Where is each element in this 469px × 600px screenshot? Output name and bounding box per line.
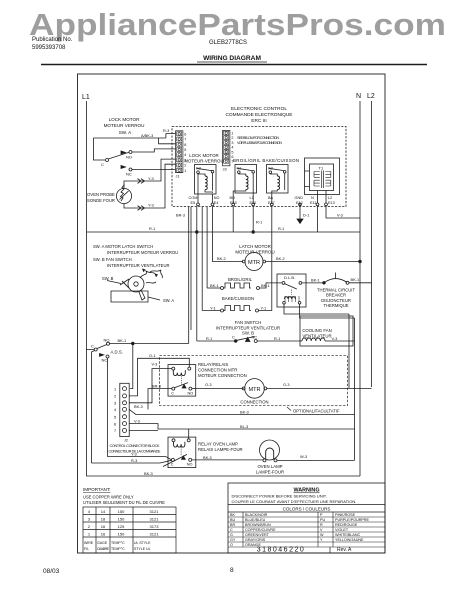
svg-text:PU: PU [320,518,325,522]
svg-text:N: N [356,93,361,100]
wire junction down to J2 pin 1 [130,344,133,389]
svg-text:BK-3: BK-3 [240,409,249,414]
svg-text:FAN SWITCH: FAN SWITCH [235,320,262,325]
wire BR-3 to relay C [148,389,172,410]
latch mechanism drawing [102,269,174,304]
svg-text:R-3: R-3 [163,128,169,133]
svg-text:VENTILATEUR: VENTILATEUR [302,333,331,338]
svg-text:NO: NO [104,338,110,343]
svg-text:R: R [320,523,323,527]
svg-text:BK-2: BK-2 [217,256,226,261]
wire bottom BK-3 return [87,350,361,477]
wire DLB to breaker [302,282,323,284]
label see below for connection [237,136,282,145]
svg-text:W: W [320,533,324,537]
relay DLB [277,274,306,307]
label relay connection MTR [198,362,247,378]
svg-text:MOTEUR VERROU: MOTEUR VERROU [104,123,145,128]
svg-text:SEE BELOW FOR CONNECTION: SEE BELOW FOR CONNECTION [237,136,279,140]
terminal L2 E13 [325,203,328,206]
wire relay NO to lamp BK-3 [192,459,263,461]
svg-text:E10: E10 [250,201,257,205]
svg-text:IMPORTANT:: IMPORTANT: [83,487,110,492]
svg-text:NO: NO [126,155,132,160]
svg-text:CONNECTION: CONNECTION [240,400,268,405]
svg-text:RELAIS LAMPE-FOUR: RELAIS LAMPE-FOUR [198,447,243,452]
wire SW A NO to J1 pin 4 [132,149,176,152]
svg-text:5: 5 [231,150,233,154]
svg-text:Rev. A: Rev. A [337,547,352,553]
relay connection MTR [168,365,196,397]
svg-text:BK-1: BK-1 [351,277,360,282]
svg-text:ERC III: ERC III [251,118,266,124]
svg-text:4: 4 [114,407,117,412]
optional dashed box [160,356,348,406]
svg-text:14: 14 [101,509,106,514]
wire J2 pin4 BK-3 [129,409,354,414]
switch SW A [93,138,105,160]
label important note [83,487,165,505]
svg-text:P: P [320,513,323,517]
wire A/BK-3 [93,137,165,139]
svg-text:C: C [101,162,104,167]
svg-text:R-1: R-1 [149,226,155,231]
svg-text:INTERRUPTEUR VENTILATEUR: INTERRUPTEUR VENTILATEUR [216,325,280,330]
svg-text:C: C [230,528,233,532]
heating element bake [202,310,220,312]
svg-text:2: 2 [88,524,91,529]
svg-text:2: 2 [114,394,116,399]
svg-text:CONNECTION MTR: CONNECTION MTR [198,368,237,373]
svg-text:BK-3: BK-3 [134,404,143,409]
wire J2 pin6 BL-3 [129,424,354,429]
svg-text:GND: GND [295,196,304,200]
wire ADS C down to R-3 [92,351,95,464]
svg-text:Y-3: Y-3 [131,451,137,456]
svg-text:16: 16 [101,532,106,537]
svg-text:LAMPE-FOUR: LAMPE-FOUR [256,469,284,474]
svg-text:Y-3: Y-3 [148,203,154,208]
svg-text:Publication No.: Publication No. [32,37,73,43]
svg-text:CONTROL CONNECTOR BLOCK: CONTROL CONNECTOR BLOCK [110,444,161,448]
cooling fan box [300,316,353,346]
svg-text:SW. B FAN SWITCH: SW. B FAN SWITCH [93,257,132,262]
wire DLB coil left down [284,304,349,314]
svg-text:BK-1: BK-1 [311,278,320,283]
wire Y-3 to relay [108,457,172,460]
svg-text:E11: E11 [310,201,316,205]
svg-text:SONDE FOUR: SONDE FOUR [87,198,115,203]
svg-text:RED/ROUGE: RED/ROUGE [335,523,358,527]
svg-text:J3: J3 [223,167,227,172]
label lock motor relay [184,153,223,164]
svg-text:MOTEUR CONNECTION: MOTEUR CONNECTION [198,373,247,378]
svg-text:FIL: FIL [84,547,89,551]
svg-text:COM: COM [189,196,198,200]
switch SW B fan [197,340,235,342]
svg-text:SW. A MOTOR LATCH SWITCH: SW. A MOTOR LATCH SWITCH [93,244,153,249]
svg-text:08/03: 08/03 [43,568,60,575]
svg-text:RELAY OVEN LAMP: RELAY OVEN LAMP [198,442,238,447]
top rule [41,64,427,66]
svg-text:18: 18 [101,517,106,522]
wire probe top Y-3 to J1 pin 6 [124,159,176,188]
svg-text:3: 3 [88,517,91,522]
svg-text:V: V [320,528,323,532]
oven lamp [260,440,280,462]
svg-text:BR-3: BR-3 [176,213,185,218]
svg-text:TEMP°C: TEMP°C [111,541,125,545]
svg-text:BLUE/BLEU: BLUE/BLEU [245,518,266,522]
svg-text:7: 7 [184,138,186,142]
svg-text:L1: L1 [82,94,90,101]
svg-text:J2: J2 [124,439,128,443]
svg-text:E13: E13 [328,201,335,205]
svg-text:THERMIQUE: THERMIQUE [323,303,348,308]
wire J2 pin7 [129,430,158,432]
svg-text:SW. A: SW. A [163,298,174,303]
wire DLB coil right down [300,304,355,318]
svg-text:A.D.S.: A.D.S. [111,350,123,355]
svg-text:E12: E12 [296,201,303,205]
svg-text:L1: L1 [250,196,254,200]
svg-text:O-3: O-3 [205,382,212,387]
svg-text:ELECTRONIC CONTROL: ELECTRONIC CONTROL [231,106,287,112]
svg-text:1: 1 [88,532,91,537]
wire E17 down to bake right [259,206,272,311]
wire E5 down to fan switch [196,207,198,342]
svg-text:USE COPPER WIRE ONLY: USE COPPER WIRE ONLY [83,495,134,500]
relay K1 [233,165,256,204]
svg-text:WIRING DIAGRAM: WIRING DIAGRAM [203,55,261,62]
wire E15 down [232,207,234,233]
wire lamp to bus W-3 [277,459,355,461]
svg-text:COPPER/CUIVRE: COPPER/CUIVRE [245,528,276,532]
svg-text:BK-3: BK-3 [203,455,212,460]
wire R-1 horizontal [87,231,361,233]
svg-text:OVEN PROBE: OVEN PROBE [87,192,115,197]
svg-text:A/BK-3: A/BK-3 [141,133,153,138]
wire probe bottom Y-3 to J1 pin 7 [124,164,176,208]
svg-text:WIRE: WIRE [84,541,94,545]
svg-text:N: N [311,196,314,200]
wire ADS NO to relays [110,343,189,345]
svg-text:V-3: V-3 [134,418,140,423]
svg-text:GREEN/VERT: GREEN/VERT [245,533,270,537]
svg-text:3121: 3121 [150,517,160,522]
label relay oven lamp [198,442,243,453]
svg-text:R-1: R-1 [278,226,284,231]
terminal NO E4 [212,194,214,204]
svg-text:3: 3 [231,141,233,145]
terminal BO E15 [232,203,235,206]
svg-text:1: 1 [231,132,233,136]
label latch motor [235,244,274,254]
svg-text:R-3: R-3 [131,458,137,463]
svg-text:Y-1: Y-1 [210,306,216,311]
svg-text:INTERRUPTEUR MOTEUR VERROU: INTERRUPTEUR MOTEUR VERROU [107,250,178,255]
label SW info [93,244,178,268]
svg-text:WHITE/BLANC: WHITE/BLANC [335,533,361,537]
svg-text:5995393708: 5995393708 [32,45,66,51]
connector J1 [176,131,187,179]
svg-text:3: 3 [114,401,116,406]
svg-text:8: 8 [230,567,234,574]
wire right bundle down [349,314,355,460]
svg-text:E17: E17 [268,201,275,205]
wire latch motor to N [266,261,360,263]
svg-text:UTILISER SEULEMENT DU FIL DE C: UTILISER SEULEMENT DU FIL DE CUIVRE [83,500,165,505]
svg-text:6: 6 [114,421,116,426]
svg-text:GY: GY [230,538,236,542]
warning box [228,483,385,554]
svg-text:BU: BU [230,518,235,522]
wire SW A NC to J1 pin 8 [132,169,176,171]
svg-text:YELLOW/JAUNE: YELLOW/JAUNE [335,538,364,542]
wire V-3 transformer to N [326,206,360,218]
terminal L1 E10 [252,203,255,206]
switch ADS [91,338,123,363]
svg-text:J1: J1 [176,174,180,179]
svg-text:GRAY/GRIS: GRAY/GRIS [245,538,266,542]
color code table [228,512,385,547]
svg-text:NO: NO [187,463,193,467]
svg-text:BR-3: BR-3 [152,383,161,388]
svg-text:C: C [232,334,235,339]
label electronic control [226,106,293,124]
svg-text:Y: Y [320,538,323,542]
svg-text:GLEB27T8CS: GLEB27T8CS [209,40,247,46]
svg-text:4: 4 [88,509,91,514]
svg-text:OPTIONAL/FACULTATIF: OPTIONAL/FACULTATIF [293,409,340,414]
svg-text:BROWN/BRUN: BROWN/BRUN [245,523,271,527]
svg-text:COMMANDE ELECTRONIQUE: COMMANDE ELECTRONIQUE [226,112,293,118]
svg-text:DISCONNECT POWER BEFORE SERVIC: DISCONNECT POWER BEFORE SERVICING UNIT. [232,494,327,499]
svg-text:Y-1: Y-1 [261,306,267,311]
svg-text:V-3: V-3 [332,336,338,341]
connector J2 [109,383,162,453]
svg-text:GAGE: GAGE [97,541,108,545]
wire N bus [359,101,361,476]
svg-text:LOCK MOTOR: LOCK MOTOR [189,153,218,158]
svg-text:2: 2 [231,136,233,140]
wire to bake from bus [201,207,203,311]
node junction at 132.8 [132,342,135,345]
motor MTR latch [245,253,263,271]
ground [297,219,303,223]
wire fan switch to cooling fan [257,340,302,342]
thermal circuit breaker [323,282,326,285]
svg-text:150: 150 [118,509,125,514]
wire L2 bus [371,101,373,387]
svg-text:O: O [230,543,233,547]
terminal COM E5 [197,194,199,204]
svg-text:V-3: V-3 [337,213,343,218]
svg-text:O-1: O-1 [149,353,156,358]
svg-text:16: 16 [101,524,106,529]
svg-text:R-1: R-1 [206,336,212,341]
node junction dots on R-1 [196,231,199,234]
svg-text:318046220: 318046220 [257,547,306,554]
wire J2 pin3 V-3 to relay coil [129,369,172,403]
wire J2 pin2 O-1 [129,358,189,396]
label cooling fan [302,328,331,338]
svg-text:COUPER LE COURANT AVANT D'EFFE: COUPER LE COURANT AVANT D'EFFECTUER UNE … [232,499,357,504]
svg-text:MOTEUR-VERROU: MOTEUR-VERROU [184,159,223,164]
wire relay NO to MTR O-3 [192,388,244,390]
svg-text:NC: NC [252,334,258,339]
svg-text:3121: 3121 [150,532,160,537]
svg-text:STYLE UL: STYLE UL [134,547,151,551]
svg-text:SW. A: SW. A [119,130,132,135]
svg-text:UL STYLE: UL STYLE [134,541,151,545]
svg-text:COOLING FAN: COOLING FAN [302,328,331,333]
wire to J1 pin 3 [159,138,176,144]
svg-text:BK-1: BK-1 [118,338,127,343]
svg-text:OVEN LAMP: OVEN LAMP [257,464,282,469]
wire to broil from bus [206,207,208,289]
wire L1 bus [87,101,95,350]
svg-text:BK-1: BK-1 [210,283,219,288]
svg-text:LOCK MOTOR: LOCK MOTOR [109,117,140,122]
svg-text:150: 150 [118,517,125,522]
label lock motor SW A [104,117,145,135]
wire MTR to L2 [267,387,372,389]
svg-text:NO: NO [188,391,194,395]
wire pair from ERC to bottom relays [190,207,192,331]
svg-text:E15: E15 [230,201,237,205]
svg-text:BL-3: BL-3 [240,424,248,429]
svg-text:NO: NO [214,196,220,200]
wire cooling fan to bus [325,340,355,342]
wire ADS NC down to Y-3 [107,358,109,457]
svg-text:VOIR PLUS BAS POUR CONNEXION: VOIR PLUS BAS POUR CONNEXION [237,141,282,145]
svg-text:TEMP°C: TEMP°C [111,547,125,551]
ERC control board box [172,127,346,207]
svg-text:MTR: MTR [248,260,260,266]
svg-text:L2: L2 [328,196,332,200]
svg-text:W-3: W-3 [300,454,307,459]
inductor cooling fan motor [302,338,325,341]
svg-text:6: 6 [184,132,186,136]
wire to J1 pin 1 [166,134,176,138]
schematic border [78,74,386,553]
svg-text:C: C [171,463,174,467]
svg-text:E4: E4 [214,201,219,205]
svg-text:BR: BR [230,523,235,527]
svg-text:BK: BK [230,513,235,517]
svg-text:COLORS / COULEURS: COLORS / COULEURS [283,507,331,512]
motor MTR connection [245,379,265,399]
svg-text:BK-3: BK-3 [144,471,153,476]
svg-text:BLACK/NOIR: BLACK/NOIR [245,513,268,517]
relay K3 [195,165,217,195]
wire gauge table [83,507,176,553]
terminal GND E12 [299,203,301,207]
svg-text:Y-3: Y-3 [148,176,154,181]
svg-text:5: 5 [184,148,186,152]
svg-text:BROIL/GRIL BAKE/CUISSON: BROIL/GRIL BAKE/CUISSON [233,158,299,163]
svg-text:PINK/ROSE: PINK/ROSE [335,513,356,517]
svg-text:R-1: R-1 [256,220,262,225]
wire N E11 down [317,206,319,232]
svg-text:E5: E5 [191,201,196,205]
svg-text:5: 5 [114,414,116,419]
svg-text:MTR: MTR [248,387,260,393]
svg-text:INTERRUPTEUR VENTILATEUR: INTERRUPTEUR VENTILATEUR [107,263,170,268]
svg-text:D-1: D-1 [303,213,309,218]
svg-text:2: 2 [184,164,186,168]
svg-text:4: 4 [184,153,186,157]
svg-text:8: 8 [184,143,186,147]
connector J3 [223,130,234,171]
svg-text:4: 4 [231,146,233,150]
svg-text:1: 1 [114,386,116,391]
relay oven lamp [163,437,196,468]
oven probe [116,188,131,203]
svg-text:150: 150 [118,532,125,537]
svg-text:PURPLE/POURPRE: PURPLE/POURPRE [335,518,370,522]
svg-text:NC: NC [126,172,132,177]
wire R-3 to relay C [92,460,172,463]
svg-text:NC: NC [102,358,108,363]
svg-text:R-1: R-1 [274,336,280,341]
svg-text:BO: BO [230,196,236,200]
terminal BA E17 [270,203,273,206]
heating element broil [207,287,221,289]
svg-text:C: C [171,391,174,395]
svg-text:3121: 3121 [150,509,160,514]
svg-text:AppliancePartsPros.com: AppliancePartsPros.com [29,7,446,42]
svg-text:T1: T1 [319,166,324,171]
svg-text:RELAY/RELAIS: RELAY/RELAIS [198,362,228,367]
svg-text:BK-2: BK-2 [276,256,285,261]
svg-text:C: C [91,344,94,349]
svg-text:125: 125 [118,524,125,529]
svg-text:G: G [230,533,233,537]
relay K2 [267,165,289,204]
svg-text:BROIL/GRIL: BROIL/GRIL [228,277,253,282]
svg-text:O-3: O-3 [283,382,290,387]
wire E4 down to latch motor [213,207,244,262]
svg-text:7: 7 [114,428,116,433]
svg-text:VIOLET: VIOLET [335,528,349,532]
svg-text:SW. B: SW. B [102,276,114,281]
svg-text:LATCH MOTOR: LATCH MOTOR [239,244,271,249]
wire E10 down [252,207,254,233]
terminal N E11 [316,203,319,206]
svg-text:BK-1: BK-1 [261,283,270,288]
svg-text:V-3: V-3 [152,362,158,367]
svg-text:3173: 3173 [150,524,160,529]
svg-text:1: 1 [184,169,186,173]
svg-text:L2: L2 [367,93,375,100]
svg-text:MOTEUR-VERROU: MOTEUR-VERROU [235,249,274,254]
wire ground D-1 [299,206,301,219]
svg-text:D.L.B.: D.L.B. [284,275,295,280]
label fan switch [216,320,280,336]
svg-text:CALIBRE: CALIBRE [97,547,110,551]
transformer T1 [305,158,340,203]
svg-text:BAKE/CUISSON: BAKE/CUISSON [222,296,254,301]
svg-text:BA: BA [268,196,274,200]
